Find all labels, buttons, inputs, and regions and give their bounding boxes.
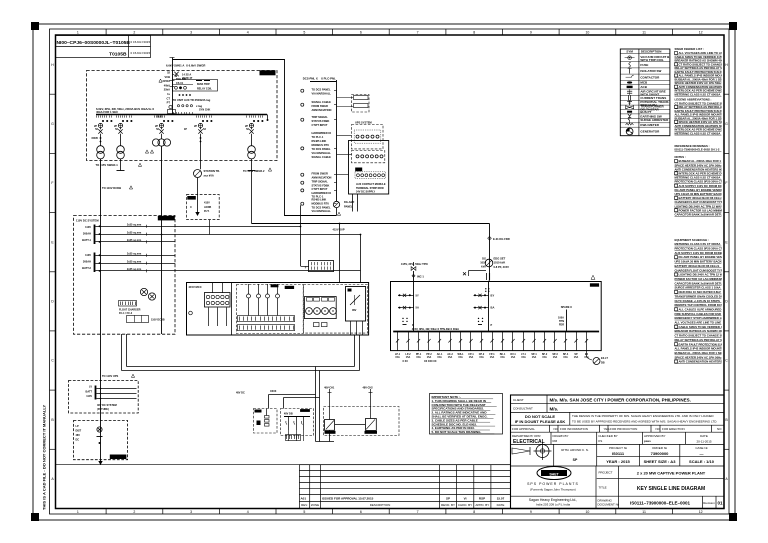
svg-text:15A: 15A (406, 356, 411, 359)
svg-text:15A: 15A (479, 356, 484, 359)
svg-text:ANTI CONDENSATION HEATERS 60W: ANTI CONDENSATION HEATERS 60W (679, 360, 730, 364)
svg-text:15A: 15A (427, 356, 432, 359)
svg-text:FDR: FDR (559, 324, 564, 327)
svg-text:DEPARTMENT/ OPR: DEPARTMENT/ OPR (512, 434, 541, 438)
svg-text:SPARE X: SPARE X (561, 305, 572, 309)
svg-text:600/5: 600/5 (92, 136, 99, 140)
svg-text:PANEL: PANEL (344, 204, 353, 208)
svg-text:NO: NO (717, 427, 722, 431)
svg-text:G: G (51, 122, 54, 126)
svg-text:MODBUS RTU: MODBUS RTU (312, 202, 330, 206)
svg-text:10: 10 (585, 510, 589, 514)
svg-text:8: 8 (473, 31, 475, 35)
svg-text:RELAY COIL: RELAY COIL (197, 88, 212, 91)
svg-text:300AH: 300AH (83, 232, 91, 236)
svg-text:—: — (700, 451, 704, 456)
svg-text:15A: 15A (448, 356, 453, 359)
svg-text:415V, 3PH, 4W, 50Hz X TPN-DB: 415V, 3PH, 4W, 50Hz X TPN-DB X 30kA (412, 327, 459, 331)
svg-text:FOR APPROVAL: FOR APPROVAL (512, 427, 535, 431)
svg-text:15A: 15A (553, 356, 558, 359)
svg-text:15A: 15A (490, 356, 495, 359)
svg-text:CHECKED BY: CHECKED BY (598, 434, 618, 438)
svg-text:TO DCS PANEL: TO DCS PANEL (312, 206, 331, 210)
svg-text:15A: 15A (574, 356, 579, 359)
svg-text:TO DCS PANEL: TO DCS PANEL (312, 88, 331, 92)
svg-text:15A: 15A (469, 356, 474, 359)
svg-text:T0105B: T0105B (109, 51, 127, 57)
svg-text:CS-01: CS-01 (176, 82, 184, 85)
svg-text:METERING CLASS 0.5S CT 600/5A: METERING CLASS 0.5S CT 600/5A (675, 131, 721, 135)
svg-text:SPS POWER PLANTS: SPS POWER PLANTS (527, 482, 579, 486)
svg-text:NI00–CPJ6–00S0000JL–T0105B: NI00–CPJ6–00S0000JL–T0105B (57, 40, 131, 46)
svg-text:6: 6 (360, 510, 362, 514)
svg-text:110V DC: 110V DC (161, 217, 172, 221)
svg-text:5: 5 (303, 31, 305, 35)
svg-text:DRAWN BY: DRAWN BY (553, 434, 569, 438)
svg-text:40kA: 40kA (164, 83, 170, 87)
svg-text:FOR INFORMATION: FOR INFORMATION (560, 427, 588, 431)
svg-text:415V MCC: 415V MCC (189, 285, 202, 289)
svg-text:REVD. BY: REVD. BY (441, 503, 455, 507)
svg-text:F: F (51, 181, 53, 185)
svg-text:ELECTRICAL: ELECTRICAL (513, 439, 545, 445)
svg-text:FUT.: FUT. (204, 210, 210, 213)
svg-text:INV: INV (352, 308, 357, 312)
svg-text:2x35 sq.mm: 2x35 sq.mm (127, 224, 142, 227)
svg-text:VIA MARSHALL: VIA MARSHALL (312, 209, 332, 213)
svg-text:1: 1 (77, 31, 79, 35)
svg-text:TO UNIT AUX TR 2500kVA tag: TO UNIT AUX TR 2500kVA tag (173, 98, 211, 102)
svg-text:DATE: DATE (700, 434, 708, 438)
svg-text:10: 10 (585, 31, 589, 35)
svg-text:SP: SP (573, 458, 578, 462)
svg-text:M/s. M/s. SAN JOSE CITY I POWE: M/s. M/s. SAN JOSE CITY I POWER CORPORAT… (550, 398, 691, 403)
svg-text:12: 12 (699, 510, 703, 514)
svg-text:15A: 15A (458, 356, 463, 359)
svg-text:110V DCDB: 110V DCDB (151, 319, 165, 322)
svg-text:INC-1: INC-1 (417, 275, 424, 279)
svg-text:415V: 415V (204, 202, 210, 205)
svg-text:XXXX: XXXX (270, 390, 277, 393)
svg-text:5. DO NOT SCALE THIS DRAWING.: 5. DO NOT SCALE THIS DRAWING. (432, 430, 482, 434)
svg-text:VI: VI (464, 497, 467, 501)
svg-text:2x35 sq.mm: 2x35 sq.mm (127, 268, 142, 271)
svg-text:1010 kVA: 1010 kVA (494, 261, 506, 265)
svg-text:48V-CH1: 48V-CH1 (324, 386, 335, 389)
svg-text:48V DC SYSTEM: 48V DC SYSTEM (97, 404, 117, 407)
svg-text:110V: 110V (86, 395, 92, 398)
svg-text:IS0111–73900000–ELE–0001: IS0111–73900000–ELE–0001 (630, 501, 691, 506)
svg-text:CHKD. BY: CHKD. BY (458, 503, 472, 507)
svg-text:TRIP SIGNAL: TRIP SIGNAL (312, 180, 329, 184)
svg-text:415V SUP: 415V SUP (333, 227, 345, 231)
svg-text:NO: NO (554, 427, 559, 431)
svg-text:Revision: Revision (703, 501, 715, 505)
svg-text:3: 3 (190, 31, 192, 35)
svg-text:METERING CLASS 0.5S CT 600/5A: METERING CLASS 0.5S CT 600/5A (675, 93, 721, 97)
svg-text:xxx kVA: xxx kVA (204, 174, 214, 178)
svg-text:2x35 sq.mm: 2x35 sq.mm (127, 260, 142, 263)
svg-text:SIGNAL CABLE: SIGNAL CABLE (312, 155, 332, 159)
svg-text:YEAR : 2015: YEAR : 2015 (606, 459, 630, 464)
svg-text:CHARGER FLOAT CUM BOOST TYPE: CHARGER FLOAT CUM BOOST TYPE (675, 268, 725, 272)
svg-text:RS485 LINK: RS485 LINK (312, 139, 327, 143)
svg-text:UPS 10kVA 30 MIN BATTERY BACKU: UPS 10kVA 30 MIN BATTERY BACKUP (675, 260, 726, 264)
svg-text:BUS PT: BUS PT (640, 110, 651, 114)
svg-text:India 203 209 (u.P.), India: India 203 209 (u.P.), India (536, 503, 570, 507)
svg-text:POWER FACTOR 0.8 LAG MINIMUM: POWER FACTOR 0.8 LAG MINIMUM (675, 277, 723, 281)
svg-text:2: 2 (133, 31, 135, 35)
svg-text:2 x 20 MW CAPTIVE POWER PLANT: 2 x 20 MW CAPTIVE POWER PLANT (637, 471, 706, 476)
svg-text:KEY SINGLE LINE DIAGRAM: KEY SINGLE LINE DIAGRAM (637, 486, 705, 492)
svg-text:CAPACITOR BANK 2x50kVAR DETUNE: CAPACITOR BANK 2x50kVAR DETUNED (675, 213, 729, 217)
svg-text:REMOTE TAP CONTROL FROM DCS: REMOTE TAP CONTROL FROM DCS (675, 303, 723, 307)
svg-text:01: 01 (717, 501, 723, 506)
svg-text:PROTECTION CLASS 5P20 30VA CTs: PROTECTION CLASS 5P20 30VA CTs (675, 247, 725, 251)
svg-text:pass: pass (644, 439, 651, 443)
svg-text:3150A: 3150A (162, 79, 170, 83)
svg-text:RSP: RSP (479, 497, 485, 501)
svg-text:2x35 sq.mm: 2x35 sq.mm (127, 231, 142, 234)
svg-text:WITH TRIP COIL: WITH TRIP COIL (640, 58, 663, 62)
svg-text:24V DC SUPPLY: 24V DC SUPPLY (356, 190, 376, 193)
svg-text:15A: 15A (542, 356, 547, 359)
svg-text:ISOLATOR SW: ISOLATOR SW (640, 69, 661, 73)
svg-text:XX XXX XX: XX XXX XX (424, 360, 437, 363)
svg-text:11: 11 (642, 510, 646, 514)
svg-text:48V DC: 48V DC (236, 392, 245, 395)
svg-text:(FUTURE): (FUTURE) (97, 408, 109, 411)
svg-text:RELAY SETTINGS AS PER RELAY ST: RELAY SETTINGS AS PER RELAY STUDY (675, 338, 730, 342)
svg-text:FUTURE: FUTURE (112, 455, 123, 459)
svg-text:TITLE: TITLE (599, 486, 607, 490)
svg-text:VIA MARSHALL: VIA MARSHALL (312, 151, 332, 155)
svg-text:0 15JULY2015: 0 15JULY2015 (131, 40, 151, 44)
svg-text:E-01 DG FDR: E-01 DG FDR (493, 237, 510, 241)
svg-text:ALL VOLTAGES ARE LINE TO LINE: ALL VOLTAGES ARE LINE TO LINE V (675, 321, 724, 325)
svg-text:x tag: x tag (196, 104, 202, 108)
svg-text:TO BE USED BY APPROVED RECEIVE: TO BE USED BY APPROVED RECEIVERS AND AGR… (572, 420, 717, 424)
svg-text:F: F (305, 266, 307, 270)
svg-text:BREAKER RATINGS AS SHOWN 40kA: BREAKER RATINGS AS SHOWN 40kA (675, 329, 726, 333)
svg-text:DB: DB (601, 362, 605, 365)
svg-text:X XX: X XX (402, 360, 408, 363)
svg-text:SYM: SYM (626, 50, 633, 54)
svg-text:IF IN DOUBT PLEASE ASK: IF IN DOUBT PLEASE ASK (515, 419, 566, 424)
svg-text:15A: 15A (563, 356, 568, 359)
svg-text:DESCRIPTION: DESCRIPTION (370, 503, 391, 507)
svg-text:IS0111-73900000-ELE-0002 SH 1-: IS0111-73900000-ELE-0002 SH 1-2 (675, 148, 720, 152)
svg-text:TO 415V SWGR-2: TO 415V SWGR-2 (243, 169, 265, 173)
svg-text:7: 7 (417, 31, 419, 35)
svg-text:DG AMF PANEL BY ENGINE VENDOR: DG AMF PANEL BY ENGINE VENDOR (679, 255, 729, 259)
svg-text:40kA FOR 1 SEC: 40kA FOR 1 SEC (96, 110, 118, 114)
svg-text:X PLC-PNL: X PLC-PNL (321, 77, 336, 81)
svg-text:SURGE ARRESTER CLASS 1 10kA: SURGE ARRESTER CLASS 1 10kA (675, 286, 721, 290)
svg-text:ISSUED FOR APPROVAL 15.07.2015: ISSUED FOR APPROVAL 15.07.2015 (322, 497, 374, 501)
svg-text:SIGNAL CABLE: SIGNAL CABLE (312, 100, 332, 104)
svg-text:G: G (725, 122, 728, 126)
svg-text:DESCRIPTION: DESCRIPTION (641, 50, 662, 54)
svg-text:FUSE: FUSE (640, 63, 648, 67)
svg-text:PT: PT (167, 101, 171, 105)
svg-text:KWH METER: KWH METER (640, 123, 659, 127)
svg-text:110V: 110V (85, 253, 91, 257)
svg-text:TO 110V DCDB: TO 110V DCDB (102, 186, 121, 190)
svg-text:15A: 15A (511, 356, 516, 359)
svg-text:Sagan Heavy Engineering Ltd.,: Sagan Heavy Engineering Ltd., (529, 498, 577, 502)
svg-text:25kA: 25kA (164, 88, 170, 92)
svg-text:GENERATOR: GENERATOR (640, 130, 660, 134)
svg-text:REV.: REV. (301, 503, 308, 507)
svg-text:6: 6 (360, 31, 362, 35)
svg-text:TO PLC-1: TO PLC-1 (312, 135, 324, 139)
svg-text:BA: BA (491, 306, 495, 310)
svg-text:UPS SYSTEM: UPS SYSTEM (355, 120, 372, 124)
svg-text:7: 7 (417, 510, 419, 514)
svg-text:48V DB: 48V DB (284, 412, 293, 415)
svg-text:TRIP SIGNAL: TRIP SIGNAL (312, 115, 329, 119)
svg-text:CT/PT INPUT: CT/PT INPUT (312, 123, 328, 127)
svg-text:15A: 15A (532, 356, 537, 359)
svg-text:HARDWIRED IO: HARDWIRED IO (312, 191, 332, 195)
svg-text:15A: 15A (521, 356, 526, 359)
svg-text:15.07: 15.07 (497, 497, 505, 501)
svg-text:AUX CONTACT MODULE: AUX CONTACT MODULE (356, 183, 386, 186)
svg-text:CONTACTOR: CONTACTOR (640, 75, 660, 79)
svg-text:415V, 3PH, 50Hz TPN: 415V, 3PH, 50Hz TPN (401, 262, 428, 266)
svg-text:2P: 2P (194, 125, 197, 128)
svg-text:0.8 PF, 415V: 0.8 PF, 415V (494, 265, 510, 269)
svg-text:15A: 15A (395, 356, 400, 359)
svg-text:TO 110V UPS: TO 110V UPS (102, 374, 119, 378)
svg-text:SCALE : 1/10: SCALE : 1/10 (689, 459, 715, 464)
svg-text:THIS IS A CAD FILE - DO NOT CO: THIS IS A CAD FILE - DO NOT CORRECT IT M… (42, 405, 47, 510)
svg-text:VCB: VCB (165, 75, 171, 79)
svg-text:SPACE HEATER 240V AC 1PH 50Hz: SPACE HEATER 240V AC 1PH 50Hz (675, 355, 723, 359)
svg-text:2x35 sq.mm: 2x35 sq.mm (127, 239, 142, 242)
svg-text:ZONE: ZONE (311, 503, 319, 507)
svg-text:1P: 1P (184, 127, 187, 131)
svg-text:20-11-2015: 20-11-2015 (696, 440, 711, 444)
svg-text:FC-1 / FC-2: FC-1 / FC-2 (119, 312, 133, 315)
svg-text:PROJECT: PROJECT (599, 471, 613, 475)
svg-text:DOCUMENT №: DOCUMENT № (598, 503, 620, 507)
svg-text:DATE: DATE (497, 503, 505, 507)
svg-text:IS0111: IS0111 (612, 451, 625, 456)
svg-text:EX.LT: EX.LT (601, 357, 608, 360)
svg-text:TRANSFORMER ONAN COOLED DYN11: TRANSFORMER ONAN COOLED DYN11 (675, 294, 729, 298)
svg-text:DG-AMF: DG-AMF (344, 200, 355, 204)
svg-text:0 15JULY2015: 0 15JULY2015 (131, 51, 151, 55)
svg-text:APPD. BY: APPD. BY (475, 503, 489, 507)
svg-text:DC: DC (76, 439, 80, 442)
svg-text:110V: 110V (85, 225, 91, 229)
svg-text:BATT-2: BATT-2 (82, 266, 91, 270)
svg-text:15A: 15A (500, 356, 505, 359)
svg-text:THE DESIGN IS THE PROPERTY OF: THE DESIGN IS THE PROPERTY OF M/S. SAGAN… (572, 414, 714, 418)
svg-text:FOR PRODUCTION: FOR PRODUCTION (610, 427, 637, 431)
svg-text:DCS-PNL X: DCS-PNL X (303, 77, 318, 81)
svg-text:8: 8 (473, 510, 475, 514)
svg-text:4: 4 (247, 510, 249, 514)
svg-text:ALL PANELS IP42 INDOOR MOUNTED: ALL PANELS IP42 INDOOR MOUNTED (675, 347, 726, 351)
svg-text:CASE №: CASE № (695, 446, 708, 450)
svg-text:RS485 LINK: RS485 LINK (312, 198, 327, 202)
svg-text:TO 415V SWGR-1: TO 415V SWGR-1 (96, 163, 119, 167)
svg-text:FROM SWGR: FROM SWGR (312, 172, 329, 176)
svg-text:PROJECT №: PROJECT № (609, 446, 628, 450)
svg-text:BATT-1: BATT-1 (82, 238, 91, 242)
svg-text:SHET: SHET (549, 472, 559, 476)
svg-text:LV: LV (89, 386, 92, 389)
svg-text:6.6kV-SW01 A: 6.6kV-SW01 A (166, 64, 184, 68)
svg-text:STATUS FDBK: STATUS FDBK (312, 184, 330, 188)
svg-text:X 6.6kV SWGR: X 6.6kV SWGR (186, 64, 205, 68)
svg-text:3: 3 (190, 510, 192, 514)
svg-text:M/s.: M/s. (550, 406, 559, 411)
svg-text:FIRE SURVIVAL CABLES FOR ESD: FIRE SURVIVAL CABLES FOR ESD (675, 312, 721, 316)
svg-text:FOR ERECTION: FOR ERECTION (662, 427, 685, 431)
svg-text:ORDER №: ORDER № (652, 446, 668, 450)
svg-text:STATUS FDBK: STATUS FDBK (312, 119, 330, 123)
svg-text:5Y: 5Y (416, 293, 419, 297)
svg-text:ACDB: ACDB (204, 206, 211, 209)
svg-text:CT: CT (167, 96, 171, 100)
svg-text:RM: RM (553, 439, 558, 443)
svg-text:5A: 5A (416, 306, 419, 310)
svg-text:2: 2 (133, 510, 135, 514)
svg-text:48V-CH2: 48V-CH2 (363, 386, 374, 389)
svg-text:110V DC SYSTEM: 110V DC SYSTEM (76, 219, 99, 223)
svg-text:BATT: BATT (86, 390, 93, 393)
svg-text:TO DCS PANEL: TO DCS PANEL (312, 147, 331, 151)
svg-text:FROM SWGR: FROM SWGR (312, 104, 329, 108)
svg-text:APPROVED BY: APPROVED BY (644, 434, 666, 438)
svg-text:BUS: BUS (157, 116, 162, 119)
svg-text:1: 1 (77, 510, 79, 514)
svg-text:ANNUNCIATION: ANNUNCIATION (312, 108, 332, 112)
svg-text:9: 9 (530, 31, 532, 35)
svg-text:STATION TR.: STATION TR. (204, 169, 221, 173)
svg-text:300AH: 300AH (83, 260, 91, 264)
svg-text:LP: LP (76, 425, 80, 428)
svg-text:4: 4 (247, 31, 249, 35)
svg-text:CONSULTANT: CONSULTANT (513, 407, 533, 411)
svg-text:48V: 48V (76, 434, 81, 437)
svg-text:A01: A01 (301, 497, 307, 501)
svg-text:F: F (725, 181, 727, 185)
svg-text:SHEET SIZE : A3: SHEET SIZE : A3 (644, 459, 677, 464)
svg-text:12: 12 (699, 31, 703, 35)
svg-text:11: 11 (642, 31, 646, 35)
svg-text:15A: 15A (437, 356, 442, 359)
svg-text:86/94 TRIP: 86/94 TRIP (197, 83, 210, 86)
svg-text:YES: YES (604, 427, 610, 431)
svg-text:SURGE ARRESTER: SURGE ARRESTER (640, 118, 669, 122)
svg-text:15A: 15A (416, 356, 421, 359)
svg-text:TNC SW: TNC SW (176, 78, 187, 81)
svg-text:73900000: 73900000 (651, 451, 670, 456)
svg-text:CT/PT INPUT: CT/PT INPUT (312, 187, 328, 191)
svg-text:VIA MARSHALL: VIA MARSHALL (312, 92, 332, 96)
svg-text:HARDWIRED IO: HARDWIRED IO (312, 131, 332, 135)
svg-text:SP: SP (446, 497, 450, 501)
svg-text:MCB: MCB (640, 81, 648, 85)
svg-text:MODBUS RTU: MODBUS RTU (312, 143, 330, 147)
svg-text:ANNUNCIATION: ANNUNCIATION (312, 176, 332, 180)
svg-text:DG: DG (482, 257, 486, 261)
svg-text:EDG SET: EDG SET (494, 257, 506, 261)
svg-text:CLIENT: CLIENT (513, 398, 524, 402)
svg-text:2x35 sq.mm: 2x35 sq.mm (127, 253, 142, 256)
svg-text:KS: KS (598, 439, 602, 443)
svg-text:RITM. ARVIND K. N.: RITM. ARVIND K. N. (561, 448, 589, 452)
svg-text:5: 5 (303, 510, 305, 514)
svg-text:BY: BY (491, 293, 495, 297)
svg-text:9: 9 (530, 510, 532, 514)
svg-text:DIST: DIST (76, 430, 82, 433)
svg-text:NO: NO (656, 427, 661, 431)
svg-text:(Formerly Sagan John Thompson): (Formerly Sagan John Thompson) (530, 488, 576, 492)
svg-text:SYN CHK: SYN CHK (199, 109, 210, 112)
svg-text:SWGR-001: SWGR-001 (261, 71, 275, 75)
